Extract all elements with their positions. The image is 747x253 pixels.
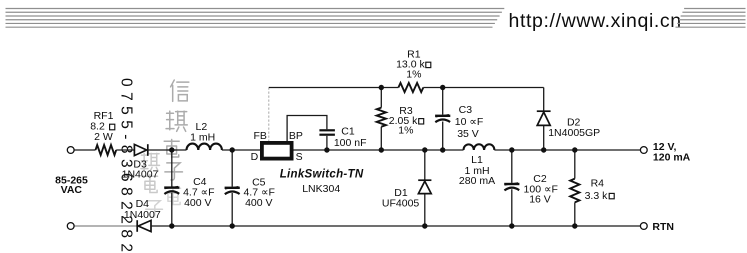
svg-text:VAC: VAC [61, 184, 83, 196]
terminal: RTN [640, 223, 647, 230]
capacitor C3 10 uF 35 V [442, 88, 444, 151]
wire: AC top input to RF1 [74, 149, 95, 151]
diode D3 1N4007 [134, 144, 147, 156]
svg-text:280 mA: 280 mA [459, 175, 495, 187]
svg-text:1N4005GP: 1N4005GP [548, 127, 600, 139]
svg-text:2 W: 2 W [94, 131, 113, 143]
svg-text:1 mH: 1 mH [190, 132, 215, 144]
svg-text:C1: C1 [341, 126, 355, 138]
watermark char dian [164, 139, 179, 157]
svg-text:35 V: 35 V [457, 128, 479, 140]
svg-text:0755-83682282: 0755-83682282 [118, 78, 135, 253]
diode D1 UF4005 (vertical, cathode up) [424, 150, 426, 226]
terminal: AC input top [67, 147, 74, 154]
wire: C1 to S rail [326, 136, 328, 150]
wire: feedback rail FB corner to R1 [269, 87, 399, 89]
watermark char qi [166, 111, 187, 131]
svg-text:16 V: 16 V [529, 194, 551, 206]
svg-text:C3: C3 [459, 104, 473, 116]
svg-text:1%: 1% [406, 69, 421, 81]
wire: BP pin bridge to C1 [287, 116, 327, 142]
capacitor C5 4.7 uF 400 V [231, 150, 233, 226]
resistor R3 2.05 k (vertical) [380, 88, 382, 151]
wire: RF1 to D3 [116, 149, 134, 151]
resistor RF1 [96, 145, 117, 155]
svg-text:LinkSwitch-TN: LinkSwitch-TN [280, 169, 364, 181]
svg-text:S: S [296, 151, 303, 163]
svg-text:400 V: 400 V [245, 197, 272, 209]
inductor L2 1 mH [187, 144, 222, 150]
watermark char zi [165, 163, 183, 180]
terminal: AC input bottom [67, 223, 74, 230]
wire: S pin rail to L1 [294, 149, 464, 151]
wire: D3 to L2 (node for C4) [148, 149, 187, 151]
svg-text:1N4007: 1N4007 [122, 169, 159, 181]
inductor L1 1 mH 280 mA [464, 144, 495, 150]
banner stripes left [6, 9, 505, 28]
svg-text:1N4007: 1N4007 [124, 209, 161, 221]
svg-text:LNK304: LNK304 [302, 183, 340, 195]
watermark faint chars [141, 153, 160, 171]
capacitor C2 100 uF 16 V [511, 150, 513, 226]
svg-text:BP: BP [289, 130, 303, 142]
wire: L2 to IC D pin (node for C5) [222, 149, 260, 151]
terminal: output 12V [640, 147, 647, 154]
resistor R4 3.3 k (vertical) [574, 150, 576, 226]
banner stripes right [676, 9, 746, 28]
svg-text:http://www.xinqi.cn: http://www.xinqi.cn [509, 10, 682, 32]
wire: D4 to RTN terminal (bottom rail) [151, 225, 640, 227]
svg-text:D: D [251, 151, 259, 163]
wire: AC bottom input to D4 (thin) [74, 225, 137, 227]
resistor R1 13.0 k [398, 83, 423, 92]
svg-text:3.3 k: 3.3 k [585, 190, 609, 202]
diode D4 1N4007 (points left) [137, 220, 151, 232]
capacitor C1 100 nF [319, 130, 335, 134]
svg-text:1%: 1% [398, 125, 413, 137]
svg-text:UF4005: UF4005 [382, 198, 420, 210]
svg-text:120 mA: 120 mA [653, 152, 691, 164]
diode D2 1N4005GP (vertical, cathode up) [543, 88, 545, 151]
svg-text:10 ∝F: 10 ∝F [455, 116, 484, 128]
svg-text:100 nF: 100 nF [334, 137, 367, 149]
svg-text:R4: R4 [591, 178, 605, 190]
capacitor C4 4.7 uF 400 V [171, 150, 173, 226]
svg-text:RTN: RTN [652, 221, 674, 233]
wire: FB riser (faint) [268, 88, 270, 142]
watermark char xin [171, 80, 189, 101]
op-amp/IC U1 LNK304 body [262, 143, 292, 159]
wire: L1 to output terminal [494, 149, 640, 151]
wire: R1 to D2 top [423, 87, 543, 89]
svg-text:FB: FB [253, 130, 266, 142]
svg-text:400 V: 400 V [184, 197, 211, 209]
